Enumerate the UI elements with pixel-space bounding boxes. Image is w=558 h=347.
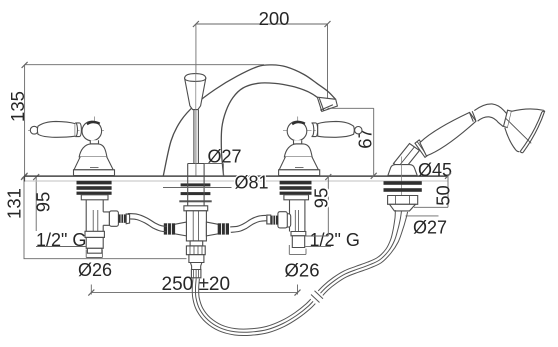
shower hose — [192, 210, 407, 335]
svg-text:95: 95 — [310, 188, 331, 209]
spout washers — [179, 183, 211, 202]
svg-text:135: 135 — [7, 91, 28, 122]
left handle ball — [82, 121, 102, 141]
right handle centerlines — [283, 117, 362, 176]
svg-text:200: 200 — [259, 8, 290, 29]
dimension 135 left — [22, 62, 28, 179]
left handle side port — [103, 211, 126, 226]
dimension 50 — [414, 173, 451, 208]
svg-text:1/2" G: 1/2" G — [36, 230, 86, 250]
right handle shank — [290, 200, 306, 248]
shower holder elbow — [394, 144, 420, 171]
left handle cap — [86, 121, 100, 125]
hand shower collar — [504, 110, 512, 127]
dimension 67 — [328, 108, 377, 179]
left handle centerlines — [28, 117, 104, 176]
right supply hose — [230, 215, 270, 232]
hand shower handle — [415, 111, 476, 157]
left handle lever grip — [30, 121, 81, 137]
diverter knob — [185, 74, 206, 164]
hand shower neck — [474, 103, 508, 126]
center tee column — [184, 176, 208, 262]
spout base — [188, 164, 223, 176]
left handle bonnet — [74, 140, 115, 175]
svg-text:Ø27: Ø27 — [208, 147, 242, 167]
label Ø81 — [163, 187, 232, 189]
dimension 95 right — [325, 174, 331, 236]
spout nozzle — [317, 97, 337, 111]
right handle lever grip — [312, 121, 362, 137]
spout centerline — [195, 27, 197, 176]
left handle washers+locknut — [77, 181, 112, 200]
right handle cap — [292, 121, 306, 125]
center tee side ports — [164, 222, 229, 236]
svg-text:Ø27: Ø27 — [413, 218, 447, 238]
svg-text:Ø81: Ø81 — [235, 173, 269, 193]
reference line spout top — [25, 64, 264, 66]
left handle shank — [85, 200, 104, 253]
svg-text:131: 131 — [4, 188, 25, 219]
dimension 250 +-20 — [88, 285, 300, 296]
shower holder flange — [388, 165, 417, 176]
svg-text:50: 50 — [433, 185, 454, 206]
deck mounting surface — [25, 175, 448, 181]
right handle bonnet — [279, 140, 320, 175]
right handle washers+locknut — [280, 181, 312, 200]
left supply hose — [126, 214, 167, 232]
dimension 131 left — [21, 174, 187, 259]
shower holder washers — [384, 181, 422, 211]
center tee lower — [186, 241, 205, 278]
shower holder centerline — [400, 157, 402, 211]
bracket Ø26 left — [86, 250, 102, 258]
shower hose break — [310, 290, 324, 304]
right handle ball — [287, 121, 307, 141]
spout outer curve — [163, 65, 335, 176]
right handle side port — [267, 212, 291, 228]
spout inner curve — [221, 83, 317, 176]
svg-text:Ø26: Ø26 — [78, 260, 112, 280]
bracket Ø26 right — [289, 245, 306, 254]
label Ø27 spout — [204, 164, 223, 176]
dimension 200 top — [193, 21, 331, 176]
dimension 95 left — [33, 174, 39, 231]
label Ø27 right — [406, 215, 439, 217]
svg-text:Ø26: Ø26 — [285, 260, 320, 281]
hand shower head — [508, 111, 545, 153]
svg-text:95: 95 — [33, 192, 54, 213]
